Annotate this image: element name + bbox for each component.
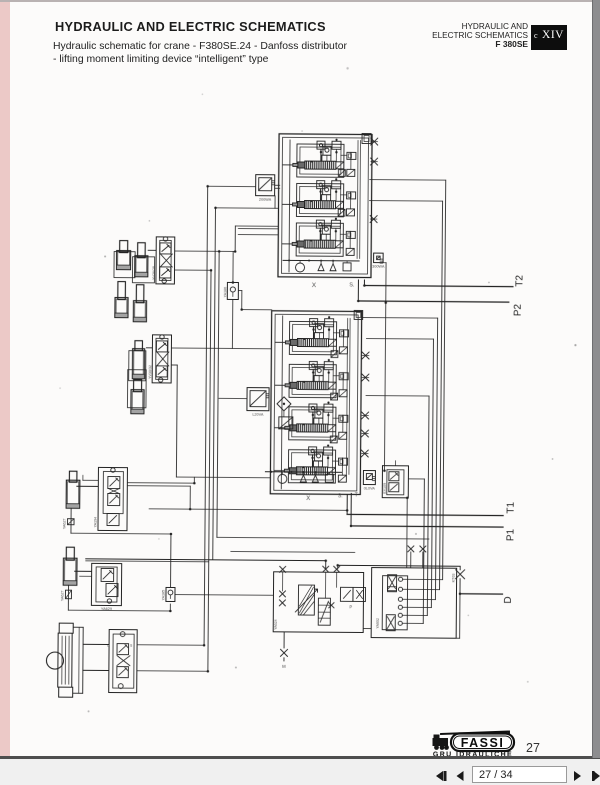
closed port symbol [371,138,378,145]
next button [574,771,581,781]
wire feed stub [274,470,289,472]
speck [346,67,348,69]
bank B1 internal feed line [289,140,290,272]
bank B1 corner box [362,133,371,143]
port circle 2 [398,587,402,591]
inter-section box [330,436,337,443]
junction [357,300,360,303]
port circle 3 [398,597,402,601]
wire bank B1 third [238,234,278,236]
wire bank B2 right a [366,338,433,341]
wire YV3032 upper [171,347,271,350]
junction [203,644,206,647]
bank B1 pump row [283,259,359,272]
wire cylinders to YV26/28 [148,249,156,251]
wire C2 drop [67,585,69,610]
cluster A frame [114,252,135,278]
speck [415,533,417,535]
valve section B2-S3 [285,401,348,440]
valve section B1-S1 [293,138,356,177]
cylinder B2 [131,380,144,414]
speck [527,681,529,683]
valve block YA194 [93,467,127,530]
junction [169,610,172,613]
wire feed stub [283,164,298,166]
wire EX109 drop [406,498,409,568]
closed port symbol [370,216,377,223]
relief valve L20VA (bank B2 left) [247,388,269,417]
inter-section box [338,169,345,176]
wire riser 2 [440,201,443,589]
port circle 5 [398,613,402,617]
junction [346,509,349,512]
wire riser YA185 [170,534,172,587]
speck [149,220,151,222]
holding valve YV26/28 [152,237,175,284]
junction [210,269,213,272]
first-page button [436,771,600,781]
valve bank B1 outline [278,134,372,278]
junction [207,670,210,673]
wire YA194 out a [127,482,194,485]
bus vertical 4 [217,251,219,537]
wire C2 to YA629 [75,570,92,572]
tank wire bottom [83,669,109,671]
wire feed stub [283,203,298,205]
cylinder C2 [63,547,77,585]
page field [472,766,567,783]
relief valve 300WA [372,253,385,269]
shutoff valve [456,570,465,579]
wire bank B2 right b [366,395,429,397]
wire lower horizontal 510 [149,509,347,511]
junction [363,284,366,287]
inter-section box [331,393,338,400]
pilot valve YA185 [161,587,175,601]
tank bracket [73,626,83,628]
wire 300WA drop [382,262,386,264]
solenoid block EX109 [382,466,408,498]
wire YA186 out [238,290,241,292]
wire tank bottom to bus [137,670,208,673]
shuttle diamond [277,397,291,411]
junction [383,469,386,472]
wire below 200WA [216,207,279,209]
wire riser 6 [423,479,424,623]
wire pump-RB join [363,628,371,630]
wire YA194 out b [127,485,190,487]
valve bank B2 outline [270,311,361,495]
bus vertical 2 [208,270,211,671]
wire bank B1 to riser a [370,179,446,182]
wire riser 3 [435,318,437,599]
wire tank top to bus [137,644,204,647]
wire riser 1 [443,180,446,579]
header title [55,19,326,34]
bank B2 internal feed line 2 [346,318,347,474]
relief valve 0L0VA [363,471,375,491]
port circle 4 [398,605,402,609]
oil tank [58,623,74,697]
valve section B2-S2 [285,359,348,398]
wire YV2628 upper [175,250,235,252]
wire cross 538 [217,537,429,539]
junction [189,508,192,511]
wire bank B1 to riser b [370,200,443,203]
relief valve YV607/200WA (bank B1 left) [256,175,275,202]
speck [488,282,490,284]
closed port symbol [362,374,369,381]
speck [104,255,106,257]
junction [218,250,221,253]
junction [232,281,235,284]
speck [301,130,303,132]
junction [350,525,353,528]
cylinder A2 [135,243,148,277]
junction [193,482,196,485]
cylinder C1 [66,471,80,508]
wire riser to bank B1 [234,226,236,251]
page number [526,741,540,755]
wire assembly2 b [86,560,209,563]
valve block YA629 [91,563,121,611]
wire feed stub [282,243,297,245]
wire T1 [346,494,348,514]
holding valve YV30/32 [148,335,171,383]
wire feed stub [275,384,290,386]
last-page button [594,771,600,781]
closed port symbol [371,158,378,165]
wire EX109 top [394,461,396,466]
valve section B1-S3 [292,217,355,256]
inter-section box [338,209,345,216]
closed port symbol [362,352,369,359]
dropdown arrow [560,775,567,779]
junction [336,564,339,567]
bus vertical 3 [213,208,216,559]
wire YV3032 lower [171,364,177,366]
valve section B2-S4 [284,444,347,483]
closed port symbol [362,412,369,419]
junction [459,593,462,596]
bank B2 pump row [265,471,341,484]
wire feed stub [275,427,290,429]
chapter box c.XIV [531,25,567,50]
pump circle [46,652,63,669]
cylinder B1 [132,341,144,379]
wire P2 [357,280,359,301]
wire C1 drop [70,508,72,533]
pdf viewer toolbar [0,759,600,785]
bank B1 internal feed line 2 [356,140,359,258]
junction [206,185,209,188]
speck [235,666,237,668]
wire YA185 to pump unit [175,594,273,597]
suspension valve box [107,629,137,692]
port circle 1 [398,577,402,581]
cylinder A3 [115,282,128,318]
bank B2 corner box [354,310,363,319]
junction [214,207,217,210]
wire RB drop [459,594,461,638]
wire feed stub [275,341,290,343]
prev button [457,771,464,781]
pilot YA627a [68,519,75,525]
speck [158,538,160,540]
speck [202,93,204,95]
wire assembly2 a [86,559,326,561]
wire L20VA left [219,397,247,399]
wire T2 [363,280,365,285]
pump control unit YA624 [273,566,366,633]
wire pump to shutoff [338,564,460,567]
vent X b [420,546,426,552]
wire to YA186 [232,251,234,282]
speck [59,387,61,389]
wire riser 4 [431,339,433,607]
speck [88,710,90,712]
wire riser 5 [427,396,429,615]
junction [240,308,243,311]
wire to D [460,593,502,595]
junction [170,533,173,536]
closed port symbol [361,450,368,457]
valve section B2-S1 [285,316,348,355]
wire YV2628 lower [175,269,211,271]
wire 200WA to bank [275,184,280,186]
closed port symbol [361,430,368,437]
wire cylinders to YV30/32 [146,347,152,349]
wire 200WA left [208,185,256,187]
speck [552,458,554,460]
header subtitle [53,41,347,66]
pilot valve square [279,417,293,429]
junction [406,497,409,500]
drain stub with X [283,632,285,648]
cluster B frame [129,351,146,381]
wire cross 552 [231,550,355,553]
speck [574,344,576,346]
port circle 6 [398,621,402,625]
junction [234,250,237,253]
wire bank B2 top to riser [363,316,438,319]
pilot YA627b [65,590,71,599]
junction [385,301,388,304]
speck [468,615,470,617]
vent X a [408,546,414,552]
wire C1 to YA194 [77,485,98,487]
wire P1 [350,493,352,525]
inter-section box [331,351,338,358]
wire riser 6 top [408,478,424,480]
junction [324,559,327,562]
valve section B1-S2 [292,178,355,217]
pilot valve YA186 [223,282,238,299]
cylinder A4 [133,285,146,322]
cylinder A1 [117,241,131,270]
over-centre block YA602 [371,568,457,639]
FASSI logo [433,732,515,759]
header right [388,23,528,50]
bank B2 internal feed line [281,316,282,489]
tank wire top [83,643,109,645]
bus vertical 1 [204,186,208,645]
